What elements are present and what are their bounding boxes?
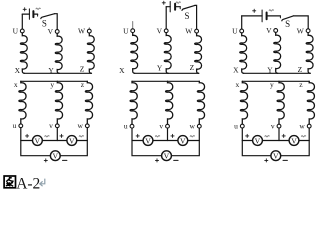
- svg-text:V: V: [273, 152, 279, 161]
- switch S blade (open): [41, 14, 55, 19]
- stub above unconnected terminal: [88, 28, 90, 30]
- svg-text:V: V: [164, 152, 170, 161]
- V1 + mark: [246, 134, 249, 137]
- svg-text:V: V: [145, 136, 151, 145]
- svg-text:u: u: [124, 121, 128, 130]
- wire battery row left: [22, 13, 29, 15]
- svg-text:V: V: [35, 136, 41, 145]
- voltmeter V3: [271, 151, 281, 161]
- svg-text:V: V: [266, 26, 272, 35]
- wire v down to row1: [56, 128, 58, 141]
- battery negative plate: [174, 4, 176, 10]
- svg-text:Y: Y: [267, 66, 273, 75]
- terminal v1: [55, 124, 59, 128]
- svg-text:V: V: [291, 136, 297, 145]
- svg-text:u: u: [234, 121, 238, 130]
- svg-text:Z: Z: [190, 63, 195, 72]
- svg-text:x: x: [236, 80, 240, 89]
- bus wire x-y-z: [132, 80, 199, 82]
- switch contact tick: [179, 7, 181, 9]
- svg-text:V: V: [180, 136, 186, 145]
- wire battery to switch contact: [35, 13, 38, 15]
- primary winding coil U-X: [20, 33, 27, 73]
- voltmeter V2: [67, 136, 77, 146]
- V1 - mark: [155, 136, 159, 137]
- caption 图 glyph (drawn): [4, 176, 15, 188]
- terminal u3: [240, 124, 244, 128]
- primary winding coil V-Y: [164, 33, 171, 74]
- V2 + mark: [60, 134, 63, 137]
- voltmeter V1 (258): [253, 136, 263, 146]
- V1 + mark: [26, 134, 29, 137]
- svg-text:v: v: [49, 121, 53, 130]
- primary winding coil V-Y: [274, 32, 281, 73]
- svg-text:W: W: [297, 26, 305, 35]
- stub above unconnected terminal: [132, 22, 134, 29]
- battery - label: [269, 10, 273, 11]
- terminal w3: [307, 124, 311, 128]
- svg-text:Y: Y: [48, 66, 54, 75]
- svg-text:W: W: [185, 27, 193, 36]
- V2 - mark: [301, 136, 305, 137]
- wire from terminal V up to battery: [165, 7, 167, 29]
- terminal w2: [197, 124, 201, 128]
- svg-text:y: y: [50, 80, 54, 89]
- wire u down to voltmeter rows: [132, 128, 168, 156]
- secondary winding coil x-u: [240, 81, 247, 124]
- battery - label: [176, 2, 180, 3]
- terminal W1: [87, 29, 91, 33]
- terminal v2: [166, 124, 170, 128]
- terminal V3: [274, 29, 278, 33]
- secondary winding coil x-u: [130, 81, 137, 124]
- svg-text:w: w: [77, 121, 83, 130]
- wire battery to switch contact: [268, 15, 281, 17]
- V3 - mark: [283, 159, 287, 161]
- battery negative plate: [266, 13, 268, 20]
- svg-text:y: y: [270, 80, 274, 89]
- terminal V2: [164, 29, 168, 33]
- primary winding coil W-Z: [306, 33, 313, 74]
- V2 - mark: [190, 136, 194, 137]
- switch contact tick: [37, 14, 39, 16]
- terminal u2: [130, 124, 134, 128]
- svg-text:V: V: [157, 26, 163, 35]
- wire w down to voltmeter rows: [57, 128, 87, 156]
- switch S blade (open): [182, 5, 195, 10]
- svg-text:X: X: [15, 66, 21, 75]
- primary winding coil U-X: [240, 33, 247, 73]
- svg-text:U: U: [232, 27, 238, 36]
- V3 + mark: [265, 159, 268, 162]
- row1 wire: [242, 140, 309, 142]
- wire v down to row1: [278, 128, 280, 141]
- wire v down to row1: [167, 128, 169, 140]
- terminal u1: [19, 124, 23, 128]
- battery + label: [253, 9, 256, 12]
- battery - label: [36, 8, 40, 9]
- V1 + mark: [136, 134, 139, 137]
- secondary winding coil z-w: [197, 81, 204, 124]
- bus wire x-y-z: [21, 80, 88, 82]
- svg-text:U: U: [123, 26, 129, 35]
- primary winding coil W-Z: [87, 33, 94, 73]
- switch S blade (open): [282, 16, 294, 21]
- terminal w1: [85, 124, 89, 128]
- svg-text:v: v: [159, 121, 163, 130]
- wire switch to terminal W: [195, 5, 197, 29]
- svg-text:S: S: [184, 11, 189, 21]
- V1 - mark: [45, 136, 49, 137]
- svg-text:w: w: [299, 121, 305, 130]
- terminal v3: [277, 124, 281, 128]
- wire battery to switch contact: [176, 6, 180, 8]
- voltmeter V3: [162, 151, 172, 161]
- svg-text:S: S: [42, 18, 47, 28]
- secondary winding coil y-v: [277, 81, 284, 124]
- svg-text:X: X: [119, 66, 125, 75]
- V3 - mark: [63, 159, 67, 161]
- secondary winding coil x-u: [19, 81, 26, 124]
- wire w down to voltmeter rows: [279, 128, 309, 156]
- voltmeter V2: [289, 136, 299, 146]
- V3 + mark: [44, 159, 47, 162]
- battery + label: [23, 8, 26, 11]
- V2 - mark: [79, 136, 83, 137]
- V3 - mark: [174, 159, 178, 161]
- row1 wire: [132, 140, 199, 142]
- bus wire X-Y-Z: [244, 72, 311, 74]
- paragraph return mark: [40, 179, 45, 187]
- svg-text:Z: Z: [298, 65, 303, 74]
- terminal U1: [20, 29, 24, 33]
- svg-text:x: x: [14, 80, 18, 89]
- row1 wire: [21, 140, 88, 142]
- battery negative plate: [32, 11, 34, 17]
- svg-text:A-2: A-2: [16, 176, 40, 193]
- voltmeter V1 (148): [143, 136, 153, 146]
- voltmeter V1 (37): [33, 136, 43, 146]
- svg-text:u: u: [13, 121, 17, 130]
- wire u down to voltmeter rows: [21, 128, 58, 156]
- svg-text:S: S: [285, 19, 290, 29]
- terminal U3: [240, 29, 244, 33]
- switch contact tick: [279, 16, 281, 18]
- bus wire X-Y-Z: [24, 72, 91, 74]
- secondary winding coil z-w: [307, 81, 314, 124]
- voltmeter V2: [178, 136, 188, 146]
- secondary winding coil z-w: [85, 81, 92, 124]
- battery positive plate: [28, 9, 30, 19]
- primary winding coil W-Z: [195, 33, 202, 73]
- battery positive plate: [261, 10, 263, 22]
- terminal V1: [55, 30, 59, 34]
- secondary winding coil y-v: [166, 81, 173, 124]
- wire battery row left: [242, 15, 262, 17]
- svg-text:V: V: [69, 136, 75, 145]
- terminal W2: [195, 29, 199, 33]
- terminal U2: [131, 29, 135, 33]
- bus wire x-y-z: [242, 80, 309, 82]
- wire from terminal U up to battery: [21, 14, 23, 29]
- wire w down to voltmeter rows: [168, 128, 200, 156]
- svg-text:V: V: [52, 152, 58, 161]
- terminal W3: [306, 29, 310, 33]
- svg-text:W: W: [78, 27, 86, 36]
- svg-text:X: X: [233, 66, 239, 75]
- V2 + mark: [171, 134, 174, 137]
- battery + label: [162, 1, 165, 4]
- wire battery row left: [166, 6, 170, 8]
- primary winding coil V-Y: [55, 33, 62, 73]
- svg-text:U: U: [13, 27, 19, 36]
- svg-text:v: v: [271, 121, 275, 130]
- battery positive plate: [169, 2, 171, 12]
- V2 + mark: [282, 134, 285, 137]
- wire switch to terminal V: [55, 14, 58, 30]
- voltmeter V3: [50, 151, 60, 161]
- wire u down to voltmeter rows: [242, 128, 279, 156]
- secondary winding coil y-v: [55, 81, 62, 124]
- bus wire X-Y-Z: [135, 72, 199, 74]
- primary winding coil U-X: [131, 33, 138, 74]
- wire switch to terminal W: [293, 16, 308, 29]
- V1 - mark: [265, 136, 269, 137]
- svg-text:V: V: [48, 27, 54, 36]
- svg-text:w: w: [189, 121, 195, 130]
- svg-text:V: V: [255, 136, 261, 145]
- svg-text:Y: Y: [157, 64, 163, 73]
- V3 + mark: [155, 159, 158, 162]
- svg-text:Z: Z: [80, 64, 85, 73]
- wire from terminal U up to battery: [241, 16, 243, 29]
